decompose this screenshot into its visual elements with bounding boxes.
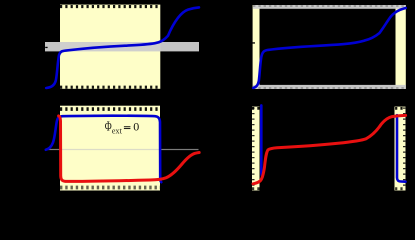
- svg-text:ext: ext: [112, 126, 123, 135]
- svg-text:0: 0: [133, 119, 139, 133]
